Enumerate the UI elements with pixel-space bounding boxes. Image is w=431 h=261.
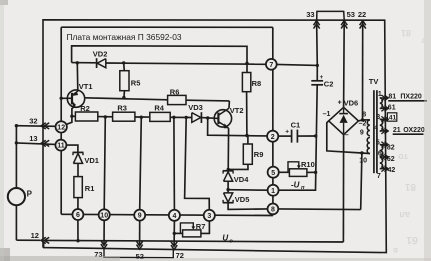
svg-text:3: 3 (207, 213, 211, 220)
svg-text:6: 6 (378, 151, 382, 158)
svg-text:12: 12 (57, 125, 65, 132)
svg-text:13: 13 (29, 134, 37, 143)
svg-text:7: 7 (269, 62, 273, 69)
svg-text:2: 2 (271, 134, 275, 141)
svg-text:+: + (338, 99, 342, 106)
svg-text:3: 3 (376, 114, 380, 121)
svg-text:VD4: VD4 (234, 175, 249, 184)
svg-text:R4: R4 (154, 104, 164, 113)
svg-text:21: 21 (393, 127, 401, 134)
svg-text:53: 53 (347, 10, 355, 19)
svg-text:о: о (229, 238, 233, 244)
svg-text:–2: –2 (359, 121, 367, 128)
svg-text:R6: R6 (170, 88, 180, 97)
svg-text:VD3: VD3 (188, 103, 203, 112)
svg-text:в: в (393, 246, 398, 255)
svg-text:81: 81 (388, 94, 396, 101)
svg-text:4: 4 (172, 213, 176, 220)
svg-text:VD2: VD2 (93, 50, 108, 59)
svg-text:5: 5 (376, 139, 380, 146)
svg-text:–1: –1 (323, 111, 331, 118)
svg-text:42: 42 (388, 167, 396, 174)
svg-text:10: 10 (359, 158, 367, 165)
svg-text:R1: R1 (85, 184, 95, 193)
svg-text:9: 9 (138, 213, 142, 220)
svg-text:–: – (345, 132, 349, 139)
svg-text:VD6: VD6 (344, 98, 359, 107)
svg-text:33: 33 (306, 10, 314, 19)
svg-text:5: 5 (271, 170, 275, 177)
svg-text:62: 62 (387, 156, 395, 163)
svg-text:Р: Р (27, 189, 33, 198)
svg-text:R10: R10 (301, 160, 315, 169)
svg-text:VD1: VD1 (84, 156, 99, 165)
svg-text:C2: C2 (324, 80, 334, 89)
svg-text:C1: C1 (291, 120, 301, 129)
svg-text:ОХ220: ОХ220 (403, 127, 425, 134)
svg-text:R8: R8 (252, 79, 262, 88)
svg-text:7: 7 (377, 173, 381, 180)
svg-text:8: 8 (362, 111, 366, 118)
svg-text:-U: -U (291, 180, 300, 189)
svg-text:32: 32 (29, 117, 37, 126)
svg-text:9: 9 (360, 130, 364, 137)
svg-text:TV: TV (369, 77, 379, 86)
svg-text:VT2: VT2 (230, 106, 244, 115)
svg-text:ал: ал (399, 210, 410, 220)
svg-text:R3: R3 (117, 103, 127, 112)
svg-text:R9: R9 (254, 150, 264, 159)
svg-text:R7: R7 (196, 222, 206, 231)
svg-text:8: 8 (271, 207, 275, 214)
svg-text:10: 10 (100, 212, 108, 219)
svg-text:22: 22 (358, 10, 366, 19)
svg-text:U: U (222, 233, 228, 242)
svg-text:R5: R5 (131, 78, 141, 87)
svg-text:81: 81 (401, 28, 411, 38)
svg-text:Плата монтажная П 36592-03: Плата монтажная П 36592-03 (67, 32, 182, 42)
svg-text:R2: R2 (80, 104, 90, 113)
svg-text:41: 41 (389, 115, 397, 122)
svg-text:VD5: VD5 (235, 195, 250, 204)
svg-text:81: 81 (404, 181, 416, 192)
svg-text:6: 6 (76, 212, 80, 219)
svg-text:1: 1 (271, 188, 275, 195)
svg-text:VT1: VT1 (79, 82, 93, 91)
svg-text:1: 1 (378, 91, 382, 98)
svg-text:+: + (285, 128, 289, 135)
svg-text:то: то (398, 152, 408, 162)
svg-text:82: 82 (387, 145, 395, 152)
svg-text:4: 4 (374, 125, 378, 132)
svg-text:б1: б1 (406, 234, 418, 246)
svg-text:п: п (301, 185, 305, 191)
svg-text:ПХ220: ПХ220 (400, 94, 421, 101)
svg-text:11: 11 (57, 143, 65, 150)
svg-text:12: 12 (31, 231, 39, 240)
svg-text:61: 61 (388, 105, 396, 112)
